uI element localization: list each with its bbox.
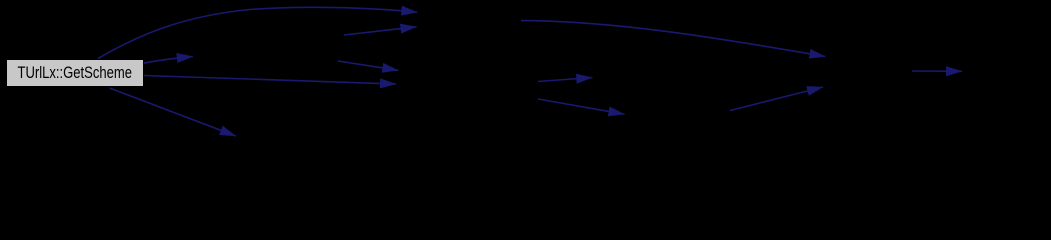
svg-text:TUrlLx::GetScheme: TUrlLx::GetScheme <box>18 64 133 82</box>
